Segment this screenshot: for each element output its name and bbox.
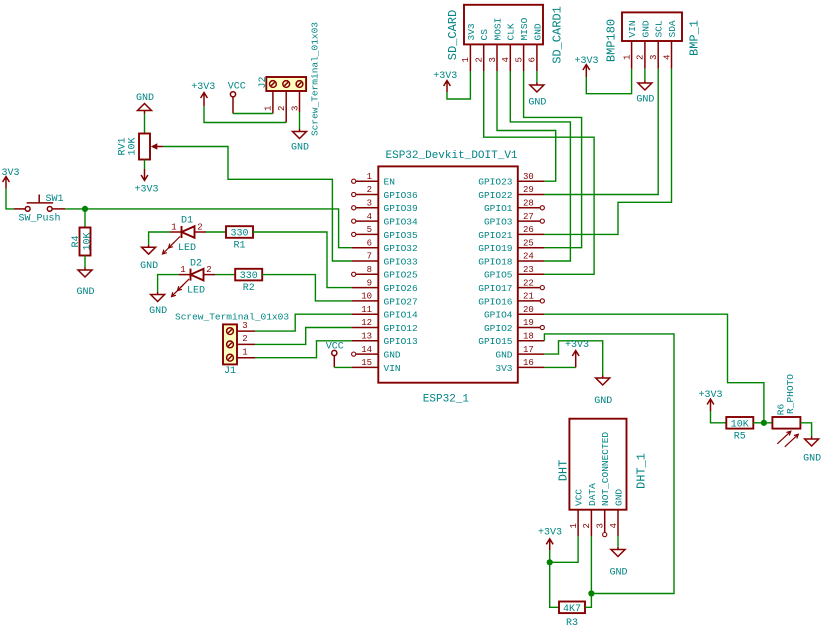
svg-text:30: 30 [523, 172, 534, 182]
wire node to R3 left [550, 562, 559, 607]
pin 2 GND of BMP180 [636, 20, 652, 69]
pin 22 GPIO17 [478, 278, 544, 294]
wire R2 to GPIO27 [262, 275, 352, 301]
svg-text:GPIO5: GPIO5 [484, 270, 513, 281]
svg-text:28: 28 [523, 199, 534, 209]
wire BMP VIN to +3V3 [586, 69, 631, 94]
wire 3V3 pin16 [544, 366, 575, 368]
svg-text:GPIO1: GPIO1 [484, 203, 513, 214]
wire GND to D1 anode [149, 232, 170, 245]
power VCC at J2 [228, 82, 246, 114]
svg-text:J1: J1 [224, 366, 236, 377]
wire +3V3 to J2 pin2 [204, 106, 286, 123]
svg-text:GPIO21: GPIO21 [478, 230, 513, 241]
wire CS to GPIO5 [484, 71, 594, 274]
power +3V3 at R5 [698, 390, 722, 411]
svg-text:ESP32_Devkit_DOIT_V1: ESP32_Devkit_DOIT_V1 [386, 150, 518, 162]
svg-text:GND: GND [291, 143, 309, 154]
wire BMP GND down [644, 69, 646, 81]
svg-text:GND: GND [803, 454, 821, 465]
wire SW1 to GPIO32 [65, 209, 352, 248]
svg-text:GPIO18: GPIO18 [478, 256, 513, 267]
svg-text:20: 20 [523, 305, 534, 315]
wire GND17 run [544, 341, 602, 376]
wire GND to RV1 [144, 114, 146, 134]
svg-text:GPIO39: GPIO39 [384, 203, 419, 214]
ground at BMP180 [636, 81, 654, 106]
svg-text:9: 9 [367, 278, 372, 288]
wire SCL to GPIO22 [544, 69, 658, 195]
svg-text:1: 1 [569, 523, 579, 528]
pin 14 GND [352, 345, 401, 361]
svg-text:SW_Push: SW_Push [19, 213, 61, 225]
svg-text:VCC: VCC [326, 341, 344, 352]
junction DATA node [588, 590, 594, 596]
svg-text:SD_CARD: SD_CARD [446, 10, 460, 60]
svg-text:GPIO27: GPIO27 [384, 296, 418, 307]
svg-text:DHT_1: DHT_1 [635, 453, 649, 489]
pin 1 of J2 [264, 91, 274, 114]
junction +3V3/R3 node [547, 559, 553, 565]
pin 6 GND of SD_CARD [528, 23, 544, 71]
svg-text:3: 3 [649, 55, 659, 60]
svg-text:GND: GND [136, 93, 154, 104]
svg-text:24: 24 [523, 252, 534, 262]
wire RV1 wiper to GPIO33 [163, 147, 352, 262]
wire SD 3V3 to +3V3 [447, 71, 470, 99]
wire J2 pin3 to GND [299, 112, 301, 129]
pin 29 GPIO22 [478, 185, 544, 201]
svg-text:NOT_CONNECTED: NOT_CONNECTED [600, 432, 611, 506]
svg-text:1: 1 [461, 57, 471, 62]
pin 20 GPIO4 [484, 305, 544, 321]
svg-text:GND: GND [76, 287, 94, 298]
svg-text:2: 2 [582, 523, 592, 528]
LED D2 [172, 259, 216, 297]
ground at SD_CARD [528, 83, 546, 109]
svg-text:3: 3 [367, 199, 372, 209]
svg-text:MOSI: MOSI [492, 18, 503, 41]
ground at D1 [140, 245, 158, 272]
pin 3 NOT_CONNECTED of DHT [596, 432, 612, 537]
wire J1 pin2 to GPIO12 [255, 328, 352, 345]
pin 21 GPIO16 [478, 292, 544, 308]
pin 2 of J1 [237, 334, 255, 344]
svg-text:GND: GND [384, 350, 401, 361]
svg-text:J2: J2 [258, 76, 269, 88]
wire GPIO4 to R5/R6 node [544, 314, 764, 423]
pin 3 MOSI of SD_CARD [488, 18, 504, 71]
svg-text:2: 2 [367, 185, 372, 195]
pin 4 GPIO34 [352, 212, 418, 228]
svg-text:1: 1 [171, 223, 176, 233]
svg-text:ESP32_1: ESP32_1 [423, 394, 470, 406]
pin 1 VIN of BMP180 [622, 20, 638, 68]
svg-text:2: 2 [242, 334, 247, 344]
svg-text:330: 330 [240, 271, 258, 282]
svg-text:LED: LED [178, 243, 196, 254]
svg-text:19: 19 [523, 318, 534, 328]
ground at D2 [149, 292, 167, 317]
wire DHT VCC to node [550, 536, 578, 562]
svg-text:GND: GND [613, 489, 624, 506]
pin 4 GND of DHT [609, 489, 625, 537]
svg-text:2: 2 [197, 223, 202, 233]
pin 1 VCC of DHT [569, 489, 585, 537]
svg-text:Screw_Terminal_01x03: Screw_Terminal_01x03 [175, 312, 289, 323]
pin 5 MISO of SD_CARD [514, 17, 530, 71]
svg-text:3: 3 [290, 106, 300, 111]
svg-text:27: 27 [523, 212, 534, 222]
svg-text:GPIO35: GPIO35 [384, 230, 419, 241]
svg-text:GPIO17: GPIO17 [478, 283, 512, 294]
pin 13 GPIO13 [352, 332, 418, 348]
pin 9 GPIO26 [352, 278, 418, 294]
pin 30 GPIO23 [478, 172, 544, 188]
svg-text:23: 23 [523, 265, 534, 275]
wire J1 pin1 to GPIO13 [255, 341, 352, 358]
svg-text:4: 4 [662, 55, 672, 60]
svg-text:2: 2 [475, 57, 485, 62]
svg-text:CS: CS [479, 29, 490, 41]
wire R6 to GND [800, 423, 811, 437]
svg-text:330: 330 [230, 229, 248, 240]
wire DHT GND down [617, 536, 619, 547]
wire MISO to GPIO19 [524, 71, 582, 248]
svg-text:SD_CARD1: SD_CARD1 [551, 6, 565, 64]
svg-text:10: 10 [361, 292, 372, 302]
power +3V3 at DHT [538, 528, 562, 551]
pin 2 DATA of DHT [582, 483, 598, 536]
pin 28 GPIO1 [484, 199, 544, 215]
potentiometer RV1 10K [118, 134, 164, 160]
svg-text:GPIO36: GPIO36 [384, 190, 419, 201]
wire R4 to GND [84, 256, 86, 268]
svg-text:Screw_Terminal_01x03: Screw_Terminal_01x03 [310, 22, 321, 136]
svg-text:GPIO4: GPIO4 [484, 310, 513, 321]
svg-text:GPIO26: GPIO26 [384, 283, 419, 294]
module SD_CARD body [446, 5, 565, 64]
wire R3 right to DATA [585, 536, 591, 607]
wire VCC to VIN [334, 366, 351, 368]
power +3V3 at pin16 [565, 340, 589, 367]
svg-text:17: 17 [523, 345, 534, 355]
svg-text:6: 6 [528, 57, 538, 62]
svg-text:10K: 10K [128, 137, 139, 155]
svg-text:4: 4 [609, 523, 619, 528]
svg-text:21: 21 [523, 292, 534, 302]
power VCC at VIN [326, 341, 344, 367]
wire +3V3 to R5 [711, 411, 727, 423]
pin 4 SDA of BMP180 [662, 20, 678, 69]
svg-text:GPIO32: GPIO32 [384, 243, 419, 254]
resistor R2 330 [235, 269, 262, 294]
svg-text:3V3: 3V3 [1, 168, 19, 179]
svg-text:GPIO15: GPIO15 [478, 336, 513, 347]
pin 25 GPIO19 [478, 238, 544, 254]
pin 24 GPIO18 [478, 252, 544, 268]
svg-text:12: 12 [361, 318, 372, 328]
svg-text:LED: LED [187, 285, 205, 296]
junction SW1/R4 node [82, 206, 88, 212]
svg-text:+3V3: +3V3 [433, 71, 457, 82]
photoresistor R6 R_PHOTO [772, 374, 800, 447]
svg-text:R4: R4 [71, 235, 82, 247]
wire D2 to R2 [215, 274, 236, 276]
wire +3V3 stem to node [549, 550, 551, 562]
svg-text:1: 1 [367, 172, 372, 182]
wire R1 to GPIO26 [253, 232, 352, 288]
svg-text:1: 1 [622, 55, 632, 60]
resistor R3 4K7 [559, 602, 585, 627]
svg-text:4: 4 [367, 212, 372, 222]
wire J1 pin3 to GPIO14 [255, 314, 352, 331]
pin 3 of J1 [237, 321, 255, 331]
pin 19 GPIO2 [484, 318, 544, 334]
svg-text:GND: GND [140, 261, 158, 272]
pin 4 CLK of SD_CARD [501, 23, 517, 71]
svg-text:GND: GND [640, 20, 651, 37]
svg-text:11: 11 [361, 305, 372, 315]
svg-text:R_PHOTO: R_PHOTO [785, 374, 796, 414]
svg-text:10K: 10K [731, 419, 749, 430]
svg-text:1: 1 [242, 347, 247, 357]
pin 23 GPIO5 [484, 265, 544, 281]
svg-text:GND: GND [149, 306, 167, 317]
svg-text:+3V3: +3V3 [698, 390, 722, 401]
svg-text:GPIO12: GPIO12 [384, 323, 419, 334]
svg-text:GND: GND [528, 98, 546, 109]
pin 3 SCL of BMP180 [649, 20, 665, 69]
connector J1 Screw_Terminal_01x03 [175, 312, 289, 378]
wire node to R6 [764, 422, 773, 424]
pin 10 GPIO27 [352, 292, 418, 308]
svg-text:R5: R5 [734, 431, 746, 442]
svg-text:+3V3: +3V3 [191, 82, 215, 93]
ground at pin17 [594, 376, 612, 408]
wire 3V3 to SW1 [6, 189, 14, 209]
wire SD GND down [536, 71, 538, 83]
svg-text:3: 3 [596, 523, 606, 528]
svg-text:3V3: 3V3 [466, 23, 477, 40]
svg-text:GPIO3: GPIO3 [484, 217, 513, 228]
svg-text:GPIO2: GPIO2 [484, 323, 513, 334]
svg-text:1: 1 [264, 106, 274, 111]
svg-text:DATA: DATA [587, 483, 598, 506]
svg-text:R3: R3 [566, 618, 578, 627]
svg-text:2: 2 [206, 265, 211, 275]
pin 3 GPIO39 [352, 199, 418, 215]
svg-text:22: 22 [523, 278, 534, 288]
svg-text:GPIO34: GPIO34 [384, 217, 419, 228]
svg-text:10K: 10K [83, 232, 94, 250]
svg-text:GPIO16: GPIO16 [478, 296, 513, 307]
svg-text:EN: EN [384, 177, 395, 188]
ground above RV1 [136, 93, 154, 114]
svg-text:25: 25 [523, 238, 534, 248]
pin 18 GPIO15 [478, 332, 544, 348]
svg-text:GND: GND [636, 95, 654, 106]
svg-text:R1: R1 [233, 241, 245, 252]
svg-text:18: 18 [523, 332, 534, 342]
svg-text:SDA: SDA [667, 20, 678, 37]
svg-text:8: 8 [367, 265, 372, 275]
svg-text:5: 5 [367, 225, 372, 235]
wire GPIO15 to DHT DATA [544, 334, 674, 594]
switch SW1 SW_Push [14, 194, 65, 225]
pin 16 3V3 [495, 358, 544, 374]
svg-text:VCC: VCC [574, 489, 585, 506]
svg-text:15: 15 [361, 358, 372, 368]
svg-text:SCL: SCL [654, 20, 665, 37]
svg-text:GPIO25: GPIO25 [384, 270, 419, 281]
svg-text:CLK: CLK [506, 23, 517, 40]
pin 6 GPIO32 [352, 238, 418, 254]
svg-text:MISO: MISO [519, 17, 530, 40]
svg-text:SW1: SW1 [46, 194, 64, 205]
pin 12 GPIO12 [352, 318, 418, 334]
svg-text:DHT: DHT [557, 460, 571, 482]
power +3V3 below RV1 [134, 169, 158, 196]
pin 2 of J2 [277, 91, 287, 123]
pin 1 EN [352, 172, 395, 188]
svg-text:GPIO19: GPIO19 [478, 243, 513, 254]
svg-text:16: 16 [523, 358, 534, 368]
power +3V3 at J2 [191, 82, 215, 106]
pin 3 of J2 [290, 91, 300, 112]
pin 8 GPIO25 [352, 265, 418, 281]
ground below R4 [76, 268, 94, 299]
pin 1 of J1 [237, 347, 255, 357]
svg-text:+3V3: +3V3 [574, 56, 598, 67]
power +3V3 at SD_CARD [433, 71, 457, 92]
ground at R6 [803, 437, 821, 465]
svg-text:GND: GND [532, 23, 543, 40]
svg-text:29: 29 [523, 185, 534, 195]
svg-text:13: 13 [361, 332, 372, 342]
wire SDA to GPIO21 [544, 69, 671, 235]
wire GND to D2 anode [158, 275, 179, 292]
wire RV1 bottom to +3V3 [144, 160, 146, 170]
svg-text:6: 6 [367, 238, 372, 248]
svg-text:2: 2 [636, 55, 646, 60]
wire MOSI to GPIO23 [497, 71, 556, 181]
ground at DHT [609, 547, 627, 579]
pin 7 GPIO33 [352, 252, 418, 268]
svg-text:D1: D1 [181, 216, 193, 227]
IC ESP32_1 ESP32_Devkit_DOIT_V1 [378, 150, 518, 406]
svg-text:+3V3: +3V3 [565, 340, 589, 351]
svg-text:BMP180: BMP180 [605, 19, 619, 62]
svg-text:+3V3: +3V3 [134, 185, 158, 196]
svg-text:5: 5 [514, 57, 524, 62]
svg-text:14: 14 [361, 345, 372, 355]
pin 15 VIN [352, 358, 401, 374]
svg-text:GND: GND [609, 568, 627, 579]
svg-text:GPIO23: GPIO23 [478, 177, 513, 188]
wire VCC to J2 pin1 [233, 113, 273, 115]
svg-text:GPIO33: GPIO33 [384, 256, 419, 267]
svg-text:GND: GND [594, 396, 612, 407]
svg-text:GPIO22: GPIO22 [478, 190, 513, 201]
resistor R5 10K [726, 417, 753, 442]
svg-text:D2: D2 [190, 259, 202, 270]
connector J2 Screw_Terminal_01x03 [258, 22, 321, 136]
pin 11 GPIO14 [352, 305, 418, 321]
svg-text:BMP_1: BMP_1 [688, 20, 702, 56]
svg-text:7: 7 [367, 252, 372, 262]
power flag 3V3 [1, 168, 19, 189]
pin 27 GPIO3 [484, 212, 544, 228]
svg-text:GPIO13: GPIO13 [384, 336, 419, 347]
svg-text:VIN: VIN [627, 20, 638, 37]
module BMP180 body [605, 12, 702, 62]
resistor R4 10K [71, 228, 94, 256]
wire CLK to GPIO18 [510, 71, 570, 261]
wire R5 to node [753, 422, 764, 424]
svg-text:GPIO14: GPIO14 [384, 310, 419, 321]
svg-text:1: 1 [180, 265, 185, 275]
svg-text:3V3: 3V3 [495, 363, 512, 374]
svg-text:4: 4 [501, 57, 511, 62]
svg-text:VCC: VCC [228, 82, 246, 93]
wire D1 to R1 [206, 231, 226, 233]
svg-text:VIN: VIN [384, 363, 401, 374]
module DHT body [557, 419, 649, 510]
ground at J2 pin3 [291, 129, 309, 154]
resistor R1 330 [226, 226, 253, 251]
svg-text:R2: R2 [243, 283, 255, 294]
pin 5 GPIO35 [352, 225, 418, 241]
svg-text:2: 2 [277, 106, 287, 111]
svg-text:GND: GND [495, 350, 512, 361]
svg-text:3: 3 [488, 57, 498, 62]
LED D1 [163, 216, 207, 255]
svg-text:4K7: 4K7 [563, 604, 581, 615]
svg-text:+3V3: +3V3 [538, 528, 562, 539]
pin 26 GPIO21 [478, 225, 544, 241]
power +3V3 at BMP180 [574, 56, 598, 77]
pin 2 CS of SD_CARD [475, 29, 491, 71]
pin 2 GPIO36 [352, 185, 418, 201]
wire node to R4 [84, 209, 86, 228]
junction R5/R6 node [761, 420, 767, 426]
pin 1 3V3 of SD_CARD [461, 23, 477, 71]
pin 17 GND [495, 345, 544, 361]
svg-text:26: 26 [523, 225, 534, 235]
svg-text:3: 3 [242, 321, 247, 331]
